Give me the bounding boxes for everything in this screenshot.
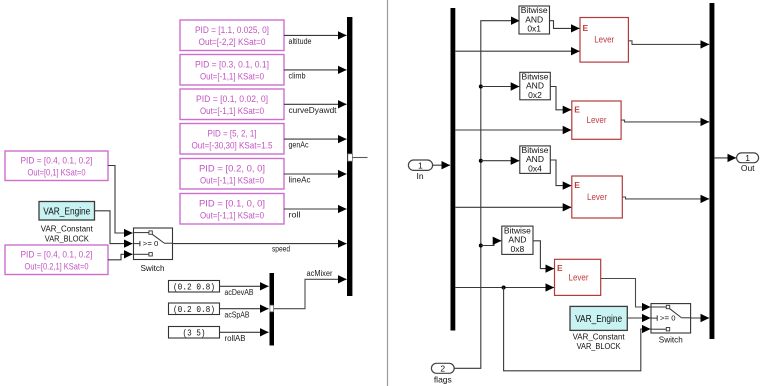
svg-text:Out=[-1,1] KSat=0: Out=[-1,1] KSat=0 — [200, 72, 264, 82]
svg-text:1: 1 — [418, 161, 423, 171]
subsystem Lever4 — [555, 259, 601, 295]
wire flags tap to Bitwise AND 0x2 — [481, 86, 520, 88]
wire C2 to mux M2 — [220, 308, 269, 310]
wire VAR_Engine to switch SW2 input 2 — [627, 317, 650, 319]
svg-text:speed: speed — [272, 245, 290, 254]
wire C1 to mux M2 — [220, 285, 269, 287]
svg-text:0x4: 0x4 — [528, 164, 542, 174]
svg-text:(3 5): (3 5) — [183, 329, 206, 339]
svg-text:lineAc: lineAc — [289, 176, 311, 185]
wire mux M2 output acMixer to mux M1 — [274, 279, 347, 308]
constant block VAR_Engine (right) — [570, 306, 627, 330]
svg-text:acSpAB: acSpAB — [225, 311, 250, 320]
PID block P7 top-left speed controller A — [5, 151, 108, 181]
switch block SW2 (right) — [651, 304, 691, 333]
mux M3 (right output mux) — [710, 3, 715, 339]
svg-text:rollAB: rollAB — [225, 334, 246, 343]
svg-text:(0.2 0.8): (0.2 0.8) — [173, 305, 215, 315]
Bitwise AND 0x1 block B1 — [519, 5, 550, 34]
junction dot on demux out4 wire — [502, 286, 506, 290]
svg-text:PID = [0.1, 0, 0]: PID = [0.1, 0, 0] — [199, 199, 265, 209]
PID block P8 bottom-left speed controller B — [5, 245, 108, 275]
wire B4 to Lever4 enable — [533, 241, 554, 269]
svg-text:In: In — [416, 171, 423, 181]
wire Lever3 output to mux M3 — [622, 197, 709, 199]
constant block VAR_Engine (left) — [39, 202, 95, 221]
svg-text:Out=[-1,1] KSat=0: Out=[-1,1] KSat=0 — [200, 211, 264, 221]
subsystem Lever3 — [572, 176, 623, 218]
svg-text:E: E — [574, 104, 580, 114]
svg-text:Switch: Switch — [659, 335, 683, 345]
mux M2 output port notch — [270, 305, 274, 312]
outport 1 Out — [737, 153, 759, 163]
svg-text:PID = [0.3, 0.1, 0.1]: PID = [0.3, 0.1, 0.1] — [195, 60, 269, 70]
svg-text:(0.2 0.8): (0.2 0.8) — [173, 283, 215, 293]
switch block SW1 (left) — [134, 228, 173, 260]
svg-text:Lever: Lever — [587, 115, 607, 125]
wire demux out3 to Lever3 input — [455, 206, 571, 208]
PID block P4 genAc controller — [180, 124, 284, 155]
wire B1 to Lever1 enable — [550, 21, 580, 29]
svg-text:PID = [0.2, 0, 0]: PID = [0.2, 0, 0] — [199, 164, 265, 174]
svg-text:PID = [0.1, 0.02, 0]: PID = [0.1, 0.02, 0] — [196, 94, 268, 104]
wire switch SW2 output to mux M3 — [691, 317, 710, 319]
svg-text:VAR_Engine: VAR_Engine — [43, 207, 90, 218]
svg-text:acDevAB: acDevAB — [225, 288, 254, 297]
junction dot flags bus tap 0x4 — [479, 159, 483, 163]
inport 1 In — [408, 160, 432, 171]
PID block P3 curveDyawdt controller — [180, 89, 284, 120]
Bitwise AND 0x2 block B2 — [520, 71, 551, 100]
wire flags tap to Bitwise AND 0x8 — [481, 241, 502, 246]
demux D1 bar — [451, 8, 456, 331]
wire flags up the bus to Bitwise AND 0x1 — [454, 21, 519, 369]
wire B2 to Lever2 enable — [550, 87, 571, 110]
svg-text:PID = [0.4, 0.1, 0.2]: PID = [0.4, 0.1, 0.2] — [21, 250, 93, 260]
svg-text:Lever: Lever — [587, 192, 607, 202]
svg-text:altitude: altitude — [289, 37, 312, 46]
junction dot flags bus tap 0x2 — [479, 85, 483, 89]
Bitwise AND 0x4 block B3 — [520, 145, 551, 174]
svg-text:PID = [0.4, 0.1, 0.2]: PID = [0.4, 0.1, 0.2] — [21, 156, 93, 166]
wire switch output speed to mux — [173, 243, 347, 245]
wire C3 to mux M2 — [220, 331, 269, 333]
wire P4 to mux — [284, 138, 347, 140]
PID block P5 lineAc controller — [180, 159, 284, 190]
svg-text:Out=[-30,30] KSat=1.5: Out=[-30,30] KSat=1.5 — [192, 141, 273, 151]
svg-text:genAc: genAc — [289, 141, 309, 150]
wire demux out4 to Lever4 input — [455, 287, 554, 289]
wire mux M1 output stub — [352, 157, 367, 159]
subsystem Lever1 — [580, 18, 628, 63]
wire Lever1 output to mux M3 — [628, 41, 709, 45]
svg-text:Out=[-2,2] KSat=0: Out=[-2,2] KSat=0 — [199, 37, 266, 47]
PID block P6 roll controller — [180, 194, 284, 225]
svg-text:0x2: 0x2 — [528, 90, 542, 100]
svg-text:PID = [1.1, 0.025, 0]: PID = [1.1, 0.025, 0] — [195, 25, 269, 35]
svg-text:VAR_BLOCK: VAR_BLOCK — [45, 234, 89, 244]
svg-text:>= 0: >= 0 — [143, 239, 159, 248]
svg-text:acMixer: acMixer — [307, 269, 333, 278]
wire P6 to mux — [284, 208, 347, 210]
svg-text:Lever: Lever — [569, 272, 589, 282]
wire P2 to mux — [284, 69, 347, 71]
svg-text:roll: roll — [289, 211, 301, 220]
svg-text:Out=[-1,1] KSat=0: Out=[-1,1] KSat=0 — [200, 106, 264, 116]
svg-text:VAR_Engine: VAR_Engine — [575, 314, 622, 325]
svg-text:Out=[0.2,1] KSat=0: Out=[0.2,1] KSat=0 — [25, 262, 89, 272]
mux M1 output port notch — [348, 154, 353, 161]
svg-text:E: E — [557, 263, 563, 273]
wire VAR_Engine to switch input 2 — [95, 211, 133, 244]
svg-text:E: E — [583, 23, 589, 33]
svg-text:>= 0: >= 0 — [660, 314, 676, 323]
svg-text:climb: climb — [289, 71, 306, 80]
svg-text:1: 1 — [745, 153, 750, 163]
wire Lever4 output to switch SW2 input 1 — [601, 279, 651, 308]
subsystem Lever2 — [572, 101, 621, 139]
svg-text:0x1: 0x1 — [527, 24, 541, 34]
svg-text:curveDyawdt: curveDyawdt — [289, 106, 338, 115]
wire demux out1 to Lever1 input — [455, 50, 579, 52]
wire B3 to Lever3 enable — [550, 160, 571, 186]
PID block P2 climb controller — [180, 55, 284, 86]
svg-text:Out=[-1,1] KSat=0: Out=[-1,1] KSat=0 — [200, 176, 264, 186]
wire P5 to mux — [284, 173, 347, 175]
svg-text:VAR_Constant: VAR_Constant — [41, 224, 94, 234]
wire P1 to mux — [284, 34, 347, 36]
mux M2 (small mux) — [270, 273, 275, 346]
wire demux out2 to Lever2 input — [455, 129, 571, 131]
wire P7 to switch input 1 — [108, 166, 133, 234]
wire junction down and along bottom to switch SW2 input 3 — [504, 288, 651, 371]
svg-text:2: 2 — [440, 364, 445, 374]
svg-text:VAR_BLOCK: VAR_BLOCK — [577, 341, 621, 351]
constant block C1 (0.2 0.8) — [169, 281, 220, 293]
wire mux M3 to outport — [714, 157, 736, 159]
svg-text:Switch: Switch — [141, 263, 165, 273]
svg-text:Out: Out — [741, 163, 755, 173]
constant block C2 (0.2 0.8) — [169, 303, 220, 315]
svg-text:Lever: Lever — [594, 34, 614, 44]
wire flags tap to Bitwise AND 0x4 — [481, 160, 520, 162]
panel divider line — [387, 0, 389, 386]
constant block C3 (3 5) — [169, 327, 220, 339]
svg-text:VAR_Constant: VAR_Constant — [573, 332, 626, 342]
junction dot flags bus tap 0x8 — [479, 244, 483, 248]
svg-text:E: E — [574, 180, 580, 190]
svg-text:0x8: 0x8 — [511, 244, 525, 254]
wire P8 to switch input 3 — [108, 254, 133, 259]
wire In to demux — [432, 164, 450, 166]
wire P3 to mux — [284, 103, 347, 105]
svg-text:flags: flags — [434, 374, 452, 384]
Bitwise AND 0x8 block B4 — [502, 225, 533, 254]
svg-text:Out=[0,1] KSat=0: Out=[0,1] KSat=0 — [28, 168, 86, 178]
wire Lever2 output to mux M3 — [621, 120, 709, 122]
PID block P1 altitude controller — [180, 20, 284, 51]
mux M1 (left big mux) — [347, 17, 352, 296]
svg-text:PID = [5, 2, 1]: PID = [5, 2, 1] — [208, 129, 257, 139]
inport 2 flags — [431, 363, 454, 373]
